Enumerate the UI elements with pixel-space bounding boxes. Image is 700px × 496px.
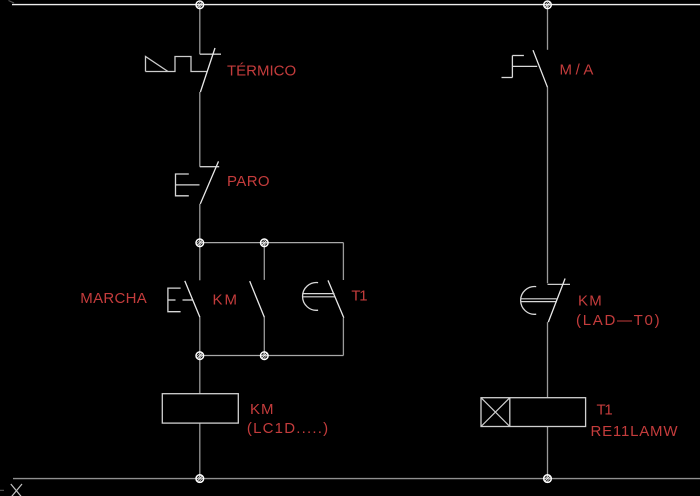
svg-text:PARO: PARO — [227, 173, 270, 190]
svg-text:(LC1D.....): (LC1D.....) — [247, 420, 329, 437]
svg-text:T1: T1 — [351, 288, 367, 305]
svg-text:RE11LAMW: RE11LAMW — [591, 423, 679, 440]
svg-text:M/A: M/A — [560, 62, 597, 79]
svg-text:T1: T1 — [597, 402, 613, 419]
svg-text:TÉRMICO: TÉRMICO — [227, 63, 296, 80]
svg-text:KM: KM — [250, 401, 275, 418]
svg-text:(LAD—T0): (LAD—T0) — [576, 312, 661, 329]
svg-text:MARCHA: MARCHA — [80, 290, 147, 307]
svg-text:KM: KM — [213, 291, 240, 308]
svg-text:KM: KM — [578, 292, 603, 309]
